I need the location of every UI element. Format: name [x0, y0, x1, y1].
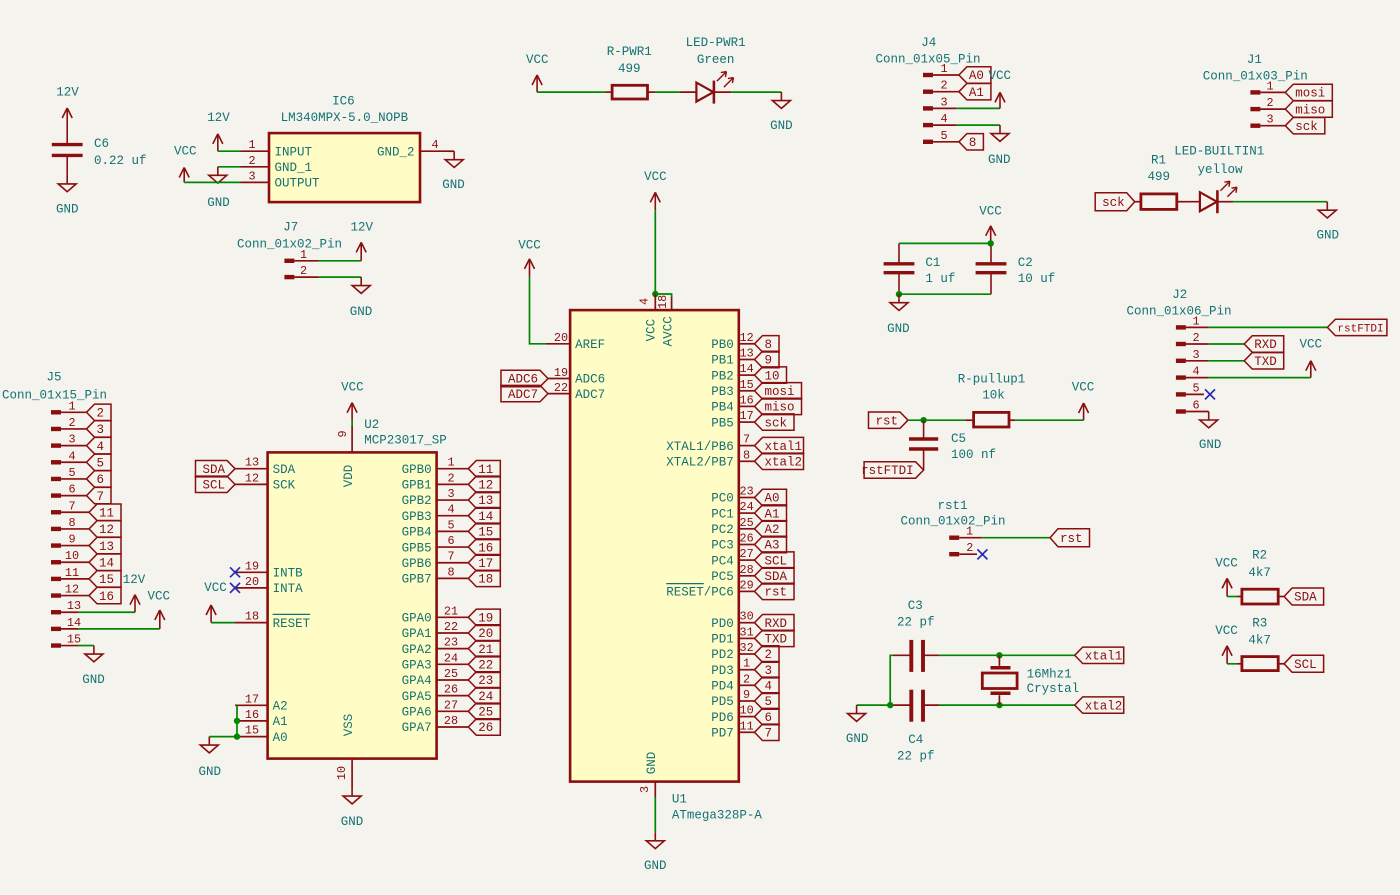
svg-text:GPB3: GPB3 — [402, 510, 432, 524]
label 6 (J5 pin 5) — [87, 471, 112, 487]
power VCC (U2 RESET) — [204, 581, 227, 623]
label 26 (U2 GPA7) — [468, 719, 500, 735]
svg-text:RESET/PC6: RESET/PC6 — [666, 586, 734, 600]
svg-text:GPB4: GPB4 — [402, 526, 432, 540]
power VCC (R3) — [1215, 624, 1238, 664]
svg-text:1: 1 — [68, 399, 75, 413]
J5 pin 10 — [51, 549, 89, 564]
U2 pin 1 GPB0 — [402, 456, 469, 477]
svg-text:xtal1: xtal1 — [765, 440, 803, 454]
svg-text:VCC: VCC — [204, 581, 227, 595]
svg-text:10: 10 — [65, 549, 79, 563]
J2 pin 6 — [1176, 399, 1209, 414]
ground (J4) — [988, 125, 1011, 167]
svg-text:GND: GND — [56, 203, 79, 217]
wire C1 to C2 bottom — [899, 293, 991, 295]
label 20 (U2 GPA1) — [468, 625, 500, 641]
svg-text:Conn_01x02_Pin: Conn_01x02_Pin — [900, 515, 1005, 529]
svg-text:20: 20 — [245, 575, 259, 589]
svg-text:17: 17 — [740, 409, 754, 423]
svg-text:8: 8 — [765, 338, 773, 352]
ground (IC6 GND_2) — [442, 151, 465, 192]
svg-text:VCC: VCC — [1215, 624, 1238, 638]
IC6 reference — [332, 94, 355, 108]
svg-text:GND: GND — [988, 153, 1011, 167]
svg-text:8: 8 — [969, 136, 977, 150]
label 23 (U2 GPA4) — [468, 672, 500, 688]
label 18 (U2 GPB7) — [468, 570, 500, 586]
svg-text:LED-BUILTIN1: LED-BUILTIN1 — [1174, 145, 1264, 159]
svg-text:17: 17 — [478, 557, 493, 571]
junction (U2 A1) — [234, 718, 240, 724]
ground (C6) — [56, 175, 79, 216]
wire U2 address pins — [209, 705, 237, 736]
wire VCC to R3 — [1227, 663, 1237, 665]
power VCC (R-pullup1) — [1072, 381, 1095, 421]
svg-text:OUTPUT: OUTPUT — [275, 177, 321, 191]
svg-text:SCL: SCL — [1294, 658, 1317, 672]
svg-text:27: 27 — [740, 547, 754, 561]
svg-text:RXD: RXD — [765, 617, 788, 631]
U2 pin 23 GPA2 — [402, 636, 469, 657]
U1 pin 27 PC4 — [711, 547, 754, 568]
U1 pin 15 PB3 — [711, 378, 754, 399]
U2 pin 2 GPB1 — [402, 471, 469, 492]
J4 value Conn_01x05_Pin — [875, 53, 980, 67]
capacitor C1 — [884, 243, 956, 294]
label mosi (U1 PB3) — [755, 383, 802, 399]
J7 value Conn_01x02_Pin — [237, 238, 342, 252]
U2 pin 7 GPB6 — [402, 550, 469, 571]
svg-text:15: 15 — [99, 573, 114, 587]
U2 pin 16 A1 — [235, 708, 288, 729]
svg-text:GND: GND — [644, 859, 667, 873]
J1 value Conn_01x03_Pin — [1203, 70, 1308, 84]
J5 pin 11 — [51, 566, 89, 581]
svg-text:12V: 12V — [351, 221, 374, 235]
ground (LED-BUILTIN1) — [1317, 202, 1340, 243]
label 10 (U1 PB2) — [755, 367, 787, 383]
svg-text:28: 28 — [740, 563, 754, 577]
U1 value ATmega328P-A — [672, 808, 763, 822]
J1 pin 2 — [1250, 96, 1285, 111]
svg-text:TXD: TXD — [765, 633, 788, 647]
svg-text:J5: J5 — [46, 371, 61, 385]
wire R-PWR1 to LED-PWR1 — [655, 91, 680, 93]
svg-text:4: 4 — [431, 138, 438, 152]
svg-text:16: 16 — [478, 541, 493, 555]
label 13 (J5 pin 9) — [89, 537, 121, 553]
svg-text:18: 18 — [478, 573, 493, 587]
power VCC (U1 AREF) — [518, 239, 541, 277]
svg-text:2: 2 — [300, 264, 307, 278]
svg-text:13: 13 — [67, 599, 81, 613]
label SCL (R3) — [1284, 655, 1324, 672]
svg-text:14: 14 — [99, 556, 114, 570]
svg-text:Conn_01x03_Pin: Conn_01x03_Pin — [1203, 70, 1308, 84]
svg-text:31: 31 — [740, 625, 754, 639]
svg-text:xtal2: xtal2 — [1085, 699, 1123, 713]
power VCC (R-PWR1) — [526, 53, 549, 92]
IC6 value LM340MPX-5.0_NOPB — [281, 111, 409, 125]
svg-text:PD5: PD5 — [711, 695, 734, 709]
svg-text:28: 28 — [444, 714, 458, 728]
svg-text:AVCC: AVCC — [662, 316, 676, 346]
svg-text:GPA4: GPA4 — [402, 674, 432, 688]
label RXD (U1 PD0) — [755, 615, 795, 631]
svg-text:23: 23 — [478, 674, 493, 688]
svg-text:GPB0: GPB0 — [402, 463, 432, 477]
svg-text:VCC: VCC — [148, 589, 171, 603]
svg-text:25: 25 — [478, 706, 493, 720]
power 12V (J5) — [123, 573, 146, 612]
svg-text:13: 13 — [245, 456, 259, 470]
svg-text:19: 19 — [245, 559, 259, 573]
svg-text:14: 14 — [478, 510, 493, 524]
svg-text:GPB5: GPB5 — [402, 541, 432, 555]
J5 pin 5 — [51, 466, 87, 481]
resistor R-pullup1 — [958, 373, 1026, 428]
svg-text:GND: GND — [846, 732, 869, 746]
U1 pin 28 PC5 — [711, 563, 754, 584]
svg-text:PD1: PD1 — [711, 633, 734, 647]
svg-text:2: 2 — [940, 79, 947, 93]
J2 pin 4 — [1176, 365, 1209, 380]
U2 reference — [364, 418, 379, 432]
svg-text:6: 6 — [765, 711, 773, 725]
svg-text:U1: U1 — [672, 792, 687, 806]
svg-text:2: 2 — [966, 541, 973, 555]
wire VCC to R-PWR1 — [537, 91, 605, 93]
svg-text:3: 3 — [638, 786, 652, 793]
label 2 (J5 pin 1) — [87, 404, 112, 420]
label 9 (U1 PB1) — [755, 351, 780, 367]
U2 pin 19 INTB — [235, 559, 303, 580]
svg-text:14: 14 — [740, 362, 754, 376]
svg-text:26: 26 — [740, 532, 754, 546]
svg-text:J2: J2 — [1172, 288, 1187, 302]
svg-text:26: 26 — [444, 683, 458, 697]
svg-text:19: 19 — [554, 366, 568, 380]
svg-text:Conn_01x06_Pin: Conn_01x06_Pin — [1126, 305, 1231, 319]
svg-text:A0: A0 — [765, 492, 780, 506]
svg-text:GND: GND — [1199, 438, 1222, 452]
label 11 (U2 GPB0) — [468, 461, 500, 477]
label rst (R-pullup1) — [868, 412, 908, 428]
wire J2 pin3 to TXD — [1209, 360, 1245, 362]
U1 pin 16 PB4 — [711, 393, 754, 414]
svg-text:22: 22 — [554, 381, 568, 395]
svg-text:2: 2 — [248, 154, 255, 168]
label rstFTDI (C5) — [861, 462, 924, 478]
svg-text:16Mhz1: 16Mhz1 — [1027, 668, 1072, 682]
svg-text:rst: rst — [765, 586, 788, 600]
svg-text:5: 5 — [97, 456, 105, 470]
regulator IC6 body — [269, 133, 420, 202]
svg-text:10: 10 — [765, 369, 780, 383]
wire J2 pin4 to VCC — [1209, 377, 1311, 379]
svg-text:SDA: SDA — [202, 463, 225, 477]
svg-text:100 nf: 100 nf — [951, 448, 996, 462]
connector rst1 reference — [937, 499, 967, 513]
svg-text:VCC: VCC — [988, 69, 1011, 83]
svg-text:MCP23017_SP: MCP23017_SP — [364, 434, 447, 448]
connector J2 reference — [1172, 288, 1187, 302]
label 11 (J5 pin 7) — [89, 504, 121, 520]
U2 pin 22 GPA1 — [402, 620, 469, 641]
svg-text:VCC: VCC — [526, 53, 549, 67]
svg-text:mosi: mosi — [765, 385, 795, 399]
power VCC (C1 C2) — [979, 204, 1002, 243]
power VCC (U1) — [644, 170, 667, 210]
U1 pin 9 PD5 — [711, 688, 754, 709]
svg-text:GPB6: GPB6 — [402, 557, 432, 571]
connector J4 reference — [921, 36, 936, 50]
no-connect (rst1 pin 2) — [977, 549, 987, 559]
wire J2 pin1 to rstFTDI — [1209, 326, 1328, 328]
svg-text:12: 12 — [478, 479, 493, 493]
svg-text:11: 11 — [65, 566, 79, 580]
svg-text:INTB: INTB — [273, 567, 304, 581]
label 8 (U1 PB0) — [755, 336, 780, 352]
svg-text:15: 15 — [67, 633, 81, 647]
capacitor C3 — [893, 599, 940, 672]
svg-text:GPA2: GPA2 — [402, 643, 432, 657]
svg-text:VCC: VCC — [341, 380, 364, 394]
label 21 (U2 GPA2) — [468, 640, 500, 656]
svg-text:4k7: 4k7 — [1248, 633, 1271, 647]
svg-text:rst: rst — [875, 414, 898, 428]
svg-text:1 uf: 1 uf — [925, 272, 955, 286]
label 15 (J5 pin 11) — [89, 571, 121, 587]
svg-text:C4: C4 — [908, 733, 923, 747]
svg-text:ADC7: ADC7 — [508, 388, 538, 402]
U2 pin 18 RESET — [235, 610, 311, 631]
wire J5 pin13 to 12V — [78, 611, 135, 613]
U1 pin 24 PC1 — [711, 500, 754, 521]
U2 pin 17 A2 — [235, 692, 288, 713]
ground (J2) — [1199, 412, 1222, 452]
svg-text:A0: A0 — [273, 731, 288, 745]
svg-text:8: 8 — [68, 516, 75, 530]
svg-text:VCC: VCC — [1215, 557, 1238, 571]
svg-text:11: 11 — [740, 719, 754, 733]
svg-text:4: 4 — [68, 449, 75, 463]
svg-text:7: 7 — [97, 490, 105, 504]
svg-text:XTAL1/PB6: XTAL1/PB6 — [666, 440, 734, 454]
svg-text:J1: J1 — [1247, 53, 1262, 67]
svg-text:PB0: PB0 — [711, 338, 734, 352]
wire LED-PWR1 to GND — [731, 91, 781, 93]
power 12V (J7) — [351, 221, 374, 261]
svg-text:VCC: VCC — [644, 170, 667, 184]
no-connect (U2 INTA) — [230, 583, 240, 593]
label A1 (J4) — [959, 84, 991, 100]
capacitor C6 — [52, 137, 147, 175]
label 4 (U1 PD4) — [755, 677, 780, 693]
wire VCC to R2 — [1227, 596, 1237, 598]
crystal 16Mhz1 — [982, 655, 1079, 705]
U1 pin 3 GND — [638, 752, 659, 797]
svg-text:R-pullup1: R-pullup1 — [958, 373, 1026, 387]
label 12 (U2 GPB1) — [468, 476, 500, 492]
svg-text:3: 3 — [97, 423, 105, 437]
svg-text:RESET: RESET — [273, 617, 311, 631]
resistor R1 — [1135, 154, 1183, 210]
svg-text:20: 20 — [478, 627, 493, 641]
svg-text:7: 7 — [447, 550, 454, 564]
svg-text:GPA6: GPA6 — [402, 706, 432, 720]
svg-text:29: 29 — [740, 578, 754, 592]
wire OUTPUT to VCC — [184, 181, 240, 183]
svg-text:1: 1 — [1192, 314, 1199, 328]
wire VCC to U2 RESET — [211, 622, 235, 624]
ic U1 body — [570, 310, 739, 781]
svg-text:rst1: rst1 — [937, 499, 967, 513]
svg-text:J7: J7 — [283, 221, 298, 235]
svg-text:R-PWR1: R-PWR1 — [607, 45, 652, 59]
svg-text:4: 4 — [638, 298, 652, 305]
svg-text:10 uf: 10 uf — [1018, 272, 1056, 286]
svg-text:16: 16 — [740, 393, 754, 407]
svg-text:2: 2 — [1266, 96, 1273, 110]
label 6 (U1 PD6) — [755, 708, 780, 724]
svg-text:2: 2 — [743, 672, 750, 686]
connector J1 reference — [1247, 53, 1262, 67]
label SCL (U2) — [195, 476, 235, 492]
svg-text:13: 13 — [740, 347, 754, 361]
svg-text:PD7: PD7 — [711, 727, 734, 741]
svg-text:GPB1: GPB1 — [402, 479, 432, 493]
J5 pin 15 — [51, 633, 81, 648]
wire J2 pin2 to RXD — [1209, 343, 1245, 345]
J2 pin 2 — [1176, 331, 1209, 346]
svg-text:1: 1 — [940, 62, 947, 76]
junction (U1 VCC/AVCC) — [652, 291, 658, 297]
J1 pin 1 — [1250, 79, 1285, 94]
svg-text:22: 22 — [478, 659, 493, 673]
label 2 (U1 PD2) — [755, 646, 780, 662]
label mosi (J1) — [1285, 84, 1332, 100]
svg-text:3: 3 — [1266, 113, 1273, 127]
label SCL (U1 PC4) — [755, 552, 795, 568]
svg-text:VCC: VCC — [518, 239, 541, 253]
svg-text:miso: miso — [765, 401, 795, 415]
svg-text:27: 27 — [444, 698, 458, 712]
svg-text:VCC: VCC — [1299, 337, 1322, 351]
svg-text:VCC: VCC — [174, 145, 197, 159]
svg-text:R3: R3 — [1252, 616, 1267, 630]
svg-text:PC4: PC4 — [711, 554, 734, 568]
svg-text:21: 21 — [444, 604, 458, 618]
label 17 (U2 GPB6) — [468, 555, 500, 571]
label rst (rst1) — [1050, 529, 1090, 547]
svg-text:xtal2: xtal2 — [765, 456, 803, 470]
led LED-PWR1 — [680, 36, 746, 104]
svg-text:0.22 uf: 0.22 uf — [94, 154, 147, 168]
svg-text:30: 30 — [740, 610, 754, 624]
label 12 (J5 pin 8) — [89, 521, 121, 537]
svg-text:PB4: PB4 — [711, 401, 734, 415]
U1 pin 32 PD2 — [711, 641, 754, 662]
svg-text:SDA: SDA — [273, 463, 296, 477]
svg-text:1: 1 — [743, 657, 750, 671]
svg-text:mosi: mosi — [1295, 87, 1325, 101]
wire J4 pin4 to GND — [957, 124, 1000, 126]
svg-text:2: 2 — [1192, 331, 1199, 345]
svg-text:GND: GND — [645, 752, 659, 775]
svg-text:PB1: PB1 — [711, 354, 734, 368]
svg-text:VSS: VSS — [342, 714, 356, 737]
svg-text:15: 15 — [740, 378, 754, 392]
svg-text:INPUT: INPUT — [275, 145, 313, 159]
svg-text:SDA: SDA — [765, 570, 788, 584]
rst1 pin 1 — [949, 525, 982, 540]
svg-text:GND_1: GND_1 — [275, 161, 313, 175]
svg-text:A3: A3 — [765, 539, 780, 553]
label 25 (U2 GPA6) — [468, 703, 500, 719]
label 8 (J4) — [959, 134, 984, 150]
svg-text:Green: Green — [697, 53, 735, 67]
U2 pin 25 GPA4 — [402, 667, 469, 688]
svg-text:1: 1 — [248, 138, 255, 152]
svg-text:R1: R1 — [1151, 154, 1166, 168]
U1 reference — [672, 792, 687, 806]
connector J5 reference — [46, 371, 61, 385]
svg-text:sck: sck — [1295, 120, 1318, 134]
junction (C4 GND) — [887, 702, 893, 708]
J5 pin 13 — [51, 599, 81, 614]
IC6 pin 1 INPUT — [241, 138, 313, 159]
label 16 (U2 GPB5) — [468, 539, 500, 555]
svg-text:AREF: AREF — [575, 338, 605, 352]
label 19 (U2 GPA0) — [468, 609, 500, 625]
svg-text:3: 3 — [68, 433, 75, 447]
svg-text:Conn_01x15_Pin: Conn_01x15_Pin — [2, 388, 107, 402]
label SDA (U2) — [195, 461, 235, 477]
U1 pin 14 PB2 — [711, 362, 754, 383]
svg-text:GND: GND — [1317, 229, 1340, 243]
wire J4 pin3 to VCC — [957, 107, 1000, 109]
svg-text:25: 25 — [444, 667, 458, 681]
svg-text:PC1: PC1 — [711, 507, 734, 521]
junction (U2 A0) — [234, 733, 240, 739]
svg-text:PC3: PC3 — [711, 539, 734, 553]
svg-text:11: 11 — [99, 506, 114, 520]
junction (xtal1) — [996, 652, 1002, 658]
junction (rst C5) — [920, 417, 926, 423]
U2 pin 13 SDA — [235, 456, 296, 477]
J4 pin 1 — [923, 62, 959, 77]
svg-text:3: 3 — [765, 664, 773, 678]
svg-text:9: 9 — [765, 354, 773, 368]
wire J5 pin14 to VCC — [78, 628, 160, 630]
U2 pin 12 SCK — [235, 471, 296, 492]
label 14 (J5 pin 10) — [89, 554, 121, 570]
svg-text:A1: A1 — [969, 86, 984, 100]
svg-text:INTA: INTA — [273, 582, 304, 596]
svg-text:RXD: RXD — [1254, 338, 1277, 352]
label 22 (U2 GPA3) — [468, 656, 500, 672]
power VCC (J5) — [148, 589, 171, 629]
label TXD (U1 PD1) — [755, 630, 795, 646]
J4 pin 2 — [923, 79, 959, 94]
resistor R2 — [1237, 589, 1284, 604]
connector J7 reference — [283, 221, 298, 235]
svg-text:1: 1 — [300, 248, 307, 262]
U2 pin 27 GPA6 — [402, 698, 469, 719]
label 16 (J5 pin 12) — [89, 587, 121, 603]
